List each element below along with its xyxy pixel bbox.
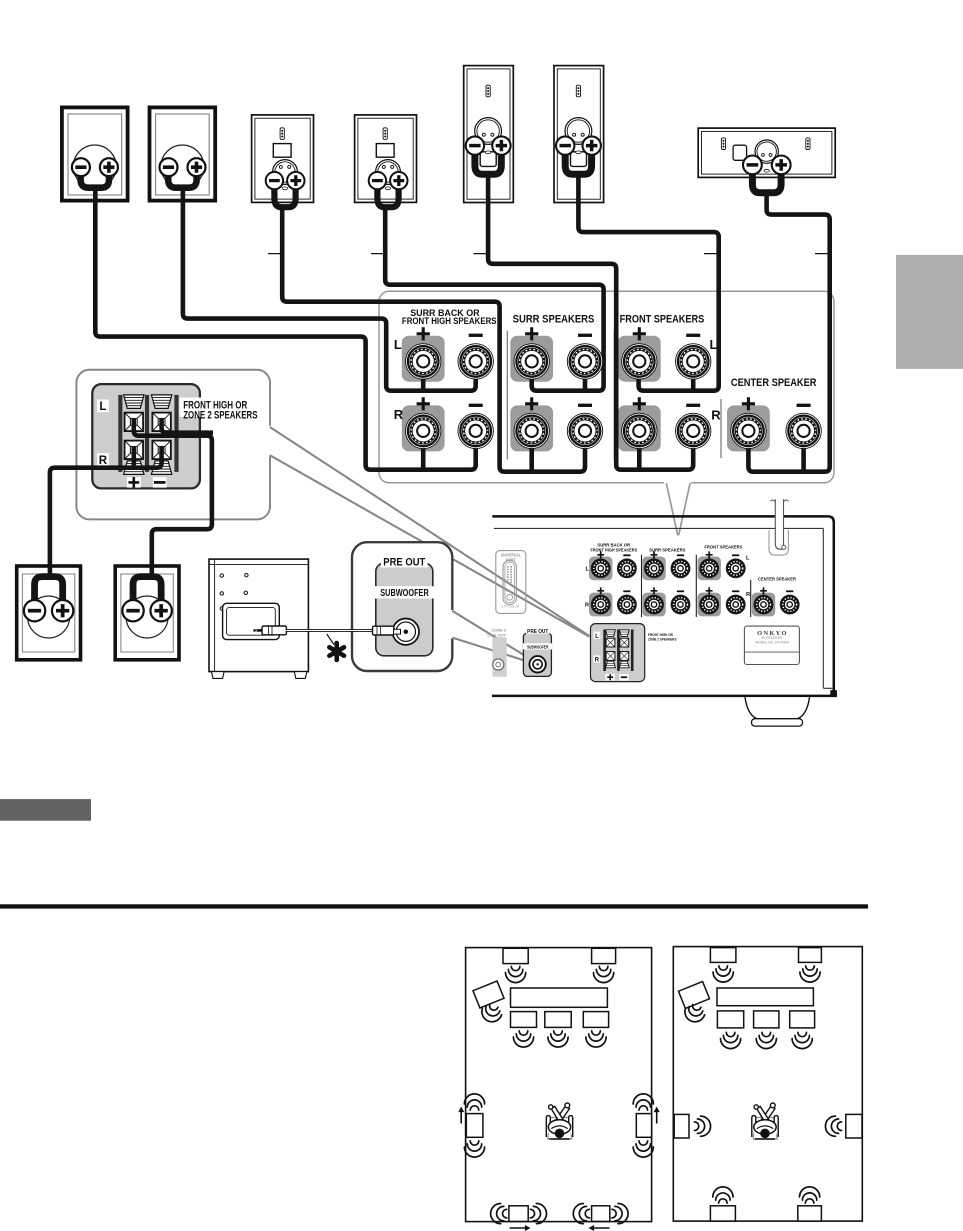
svg-text:R: R	[99, 455, 108, 467]
spring clips	[124, 395, 144, 409]
svg-text:ZONE 2 SPEAKERS: ZONE 2 SPEAKERS	[648, 637, 677, 642]
receiver foot	[745, 697, 810, 719]
wire D: SURR-L speaker to SURR L	[385, 206, 603, 391]
svg-text:FRONT SPEAKERS: FRONT SPEAKERS	[704, 544, 742, 549]
speaker SB-R (top-left)	[62, 107, 128, 200]
svg-text:FRONT SPEAKERS: FRONT SPEAKERS	[620, 314, 705, 326]
receiver PRE OUT subwoofer	[523, 633, 551, 676]
speaker FRONT-L (tall)	[554, 66, 604, 203]
svg-text:FRONT HIGH SPEAKERS: FRONT HIGH SPEAKERS	[590, 547, 637, 552]
front left / center / front right	[511, 1012, 537, 1028]
subwoofer (angled)	[678, 982, 709, 1009]
speaker SB-L	[150, 107, 216, 200]
listener	[752, 1103, 778, 1139]
onkyo name plate	[744, 626, 799, 664]
right margin tab	[896, 255, 963, 369]
front trio	[717, 1011, 743, 1028]
tv	[511, 988, 608, 1007]
RCA cable with plugs	[253, 629, 256, 632]
svg-text:L: L	[595, 634, 599, 640]
gray pads behind + posts	[402, 336, 445, 382]
svg-text:L: L	[746, 556, 750, 562]
asterisk footnote mark	[327, 634, 334, 645]
subwoofer (angled)	[473, 981, 504, 1008]
speaker SURR-R (small)	[252, 115, 314, 207]
svg-text:FRONT HIGH SPEAKERS: FRONT HIGH SPEAKERS	[402, 316, 497, 327]
wire F: FRONT-L speaker to FRONT L	[578, 173, 718, 391]
speaker box at x=14.9	[17, 566, 81, 660]
surround speakers on side walls	[674, 1114, 689, 1138]
gray clip panel	[92, 384, 200, 488]
svg-text:UNIVERSAL: UNIVERSAL	[501, 553, 522, 557]
wire G: CENTER speaker to CENTER	[748, 191, 829, 472]
wedge lines to receiver zone2 block	[270, 427, 590, 637]
speaker box at x=113.4	[115, 566, 179, 660]
tv	[717, 988, 813, 1006]
svg-text:ZONE 2 SPEAKERS: ZONE 2 SPEAKERS	[183, 408, 257, 421]
svg-text:17V max 2A: 17V max 2A	[502, 604, 520, 608]
svg-text:L: L	[394, 337, 402, 352]
wire B: SB-L speaker to SURR BACK L	[183, 186, 476, 391]
svg-text:L: L	[710, 337, 718, 352]
redacted heading bar	[0, 799, 91, 821]
surround speakers on side walls	[466, 1114, 483, 1138]
svg-text:L: L	[99, 401, 106, 413]
svg-text:MODEL No. HT-R390: MODEL No. HT-R390	[755, 640, 789, 644]
svg-text:SUBWOOFER: SUBWOOFER	[527, 644, 549, 650]
front high speakers	[710, 948, 736, 963]
+/- marks	[417, 327, 430, 340]
svg-text:SUBWOOFER: SUBWOOFER	[380, 587, 429, 598]
svg-text:SURR SPEAKERS: SURR SPEAKERS	[513, 314, 595, 326]
wedge lines to receiver subwoofer jack	[452, 611, 530, 661]
group dividers	[507, 331, 721, 460]
speaker CENTER (horizontal)	[698, 128, 835, 193]
svg-text:PRE OUT: PRE OUT	[383, 557, 426, 569]
speaker SURR-L (small)	[355, 115, 417, 207]
universal port	[496, 551, 526, 614]
callout wedge to receiver terminals	[666, 483, 690, 535]
speaker FRONT-R (tall)	[464, 66, 514, 203]
wire E: FRONT-R speaker to FRONT R	[488, 173, 693, 470]
surround back speakers on bottom wall	[710, 1206, 735, 1221]
svg-text:SURR SPEAKERS: SURR SPEAKERS	[649, 547, 685, 552]
svg-text:LINE OUT: LINE OUT	[487, 633, 506, 638]
svg-text:R: R	[711, 408, 721, 423]
svg-text:L: L	[585, 566, 589, 572]
surround back speakers on bottom wall	[509, 1206, 528, 1222]
section rule	[0, 904, 868, 908]
receiver speaker terminal field	[589, 557, 612, 581]
wire A: SB-R speaker to SURR BACK R	[95, 186, 475, 470]
FM antenna strap and holder	[769, 530, 788, 555]
receiver zone2 clip block	[591, 624, 645, 682]
listener	[546, 1103, 572, 1139]
svg-text:PRE OUT: PRE OUT	[527, 629, 549, 635]
wire C: SURR-R speaker to SURR R	[282, 206, 585, 472]
svg-text:AV RECEIVER: AV RECEIVER	[761, 636, 783, 640]
svg-text:CENTER SPEAKER: CENTER SPEAKER	[731, 377, 817, 389]
svg-text:PORT: PORT	[506, 558, 516, 562]
svg-text:R: R	[394, 407, 404, 422]
front high speakers	[503, 948, 528, 963]
zone2 clip wires	[134, 419, 212, 566]
cable break ticks	[268, 253, 829, 255]
svg-text:R: R	[595, 658, 600, 664]
svg-text:CENTER SPEAKER: CENTER SPEAKER	[758, 576, 797, 581]
